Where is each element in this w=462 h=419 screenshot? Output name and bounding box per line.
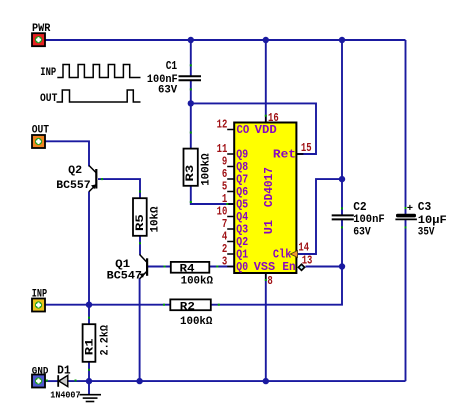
svg-text:Q2: Q2 [68, 165, 82, 177]
svg-text:C2: C2 [353, 201, 367, 214]
svg-text:R1: R1 [84, 338, 96, 355]
resistor R2 [170, 299, 211, 310]
pin 3 stub [227, 266, 234, 268]
svg-text:Q1: Q1 [115, 259, 131, 271]
wire C1 top branch [190, 40, 192, 76]
capacitor C1 [179, 76, 202, 80]
diode D1 1N4007 [58, 375, 68, 387]
svg-text:63V: 63V [353, 226, 371, 238]
pin 14 Clk arrow [290, 251, 297, 258]
svg-text:C1: C1 [166, 60, 178, 73]
pin 5 stub [227, 191, 234, 193]
wire Q1 emitter down to bottom rail [139, 279, 141, 382]
wire C3 top branch [405, 40, 407, 214]
svg-text:12: 12 [217, 118, 228, 132]
svg-text:Ret: Ret [273, 148, 296, 162]
terminal GND [32, 375, 45, 388]
wire VSS pin 8 down to rail [265, 273, 267, 381]
wire INP terminal to R2 left [45, 304, 171, 306]
pin 2 stub [227, 253, 234, 255]
svg-text:En: En [282, 260, 295, 274]
pin 8 stub [265, 273, 267, 280]
SECTION: components [32, 33, 417, 401]
svg-text:R4: R4 [180, 263, 196, 275]
terminal INP [32, 299, 45, 312]
wire VDD pin16 branch [265, 40, 267, 123]
junction dot C1 top [188, 37, 194, 43]
svg-text:INP: INP [32, 289, 48, 301]
svg-text:Clk: Clk [273, 248, 292, 262]
junction dot VSS rail [263, 378, 269, 384]
svg-text:100kΩ: 100kΩ [180, 316, 213, 328]
wire Q1 base to R4 left [148, 266, 171, 268]
junction dot VDD branch top [263, 37, 269, 43]
resistor R5 [133, 198, 147, 236]
wire Q2 base to R5 top [98, 179, 140, 198]
svg-text:+: + [407, 203, 413, 215]
svg-text:INP: INP [40, 67, 56, 79]
transistor Q2 BC557 [89, 166, 96, 192]
terminal OUT [32, 135, 45, 148]
pin junction green ticks [46, 64, 407, 381]
svg-text:35V: 35V [418, 226, 435, 238]
svg-text:14: 14 [298, 240, 309, 254]
ground symbol [80, 395, 102, 402]
svg-text:1N4007: 1N4007 [50, 390, 80, 401]
SECTION: rails and wires [45, 37, 406, 395]
pin 16 stub [265, 116, 267, 123]
svg-text:R3: R3 [185, 164, 197, 181]
wire GND bottom rail [68, 380, 406, 382]
junction dot C2 branch top [339, 37, 345, 43]
pin 12 stub [227, 129, 234, 131]
svg-text:PWR: PWR [32, 23, 51, 35]
svg-text:2.2kΩ: 2.2kΩ [100, 325, 112, 356]
wire GND terminal to D1 [45, 380, 59, 382]
junction dot C1 bottom node [188, 100, 194, 106]
svg-text:100kΩ: 100kΩ [200, 153, 212, 186]
wire VDD-C2 branch [341, 40, 343, 215]
wire node to R3 top [190, 103, 192, 148]
svg-text:15: 15 [301, 141, 312, 155]
wire R4 right to pin 3 [209, 266, 234, 268]
wire En (pin 13) [306, 266, 343, 268]
wire R5 bottom to Q1 collector [139, 236, 141, 255]
svg-text:OUT: OUT [40, 93, 58, 105]
pin 13 En diamond [298, 264, 304, 270]
svg-text:CO: CO [237, 123, 250, 137]
wire INP node to R1 top [88, 305, 90, 325]
svg-text:16: 16 [268, 111, 279, 125]
svg-text:VSS: VSS [254, 260, 275, 274]
junction dot R1 bottom rail [86, 378, 92, 384]
svg-text:GND: GND [32, 365, 49, 377]
pin 7 stub [227, 228, 234, 230]
capacitor C3 polarized [395, 214, 417, 220]
svg-text:10kΩ: 10kΩ [149, 206, 161, 232]
svg-text:BC557: BC557 [56, 180, 90, 192]
resistor R3 [184, 149, 198, 186]
svg-text:VDD: VDD [255, 123, 277, 137]
capacitor C2 [332, 215, 354, 219]
svg-text:C3: C3 [418, 201, 432, 214]
pin 15 stub [296, 153, 303, 155]
svg-text:D1: D1 [57, 364, 71, 377]
junction dot Q1 emitter rail [136, 378, 142, 384]
svg-text:OUT: OUT [32, 124, 50, 136]
op-amp U1 CD4017 IC body [234, 123, 296, 274]
svg-text:BC547: BC547 [107, 270, 142, 282]
svg-text:U1: U1 [262, 220, 276, 234]
resistor R4 [171, 262, 210, 273]
svg-text:CD4017: CD4017 [262, 167, 276, 207]
pin 9 stub [227, 166, 234, 168]
pin 11 stub [227, 153, 234, 155]
pin 4 stub [227, 241, 234, 243]
wire ground stem [88, 381, 90, 394]
wire C3 bottom to rail [405, 220, 407, 381]
svg-text:R2: R2 [180, 301, 195, 313]
wire node to Ret (pin 15) [191, 103, 316, 154]
wire C2 bottom to En node [341, 219, 343, 266]
wire R1 bottom to rail [88, 362, 90, 381]
svg-text:3: 3 [222, 255, 227, 269]
pin 6 stub [227, 178, 234, 180]
junction dot En node [339, 263, 345, 269]
svg-text:13: 13 [302, 254, 313, 268]
waveform INP square wave [57, 65, 140, 78]
wire Clk (pin 14) to VDD branch [298, 179, 342, 254]
junction dot INP-R1-Q2 node [86, 302, 92, 308]
svg-text:100kΩ: 100kΩ [181, 276, 214, 288]
svg-text:R5: R5 [135, 214, 147, 231]
wire VCC top rail [45, 39, 406, 41]
junction dot Clk branch [339, 176, 345, 182]
waveform OUT square wave [57, 90, 141, 102]
wire R3 bottom to pin 1 [191, 186, 234, 204]
wire OUT terminal to Q2 collector [45, 141, 90, 166]
svg-text:8: 8 [267, 274, 272, 288]
svg-text:100nF: 100nF [353, 214, 385, 226]
pin 10 stub [227, 216, 234, 218]
svg-text:10µF: 10µF [418, 215, 447, 227]
svg-text:63V: 63V [158, 84, 178, 96]
terminal PWR [32, 33, 45, 46]
pin 1 stub [227, 203, 234, 205]
resistor R1 [83, 324, 96, 362]
svg-text:Q0: Q0 [236, 260, 248, 274]
wire Q2 emitter down to INP node [88, 192, 90, 305]
wire En node down to R2 [211, 267, 342, 305]
wire C1 bottom to node [190, 80, 192, 103]
transistor Q1 BC547 [139, 255, 147, 279]
